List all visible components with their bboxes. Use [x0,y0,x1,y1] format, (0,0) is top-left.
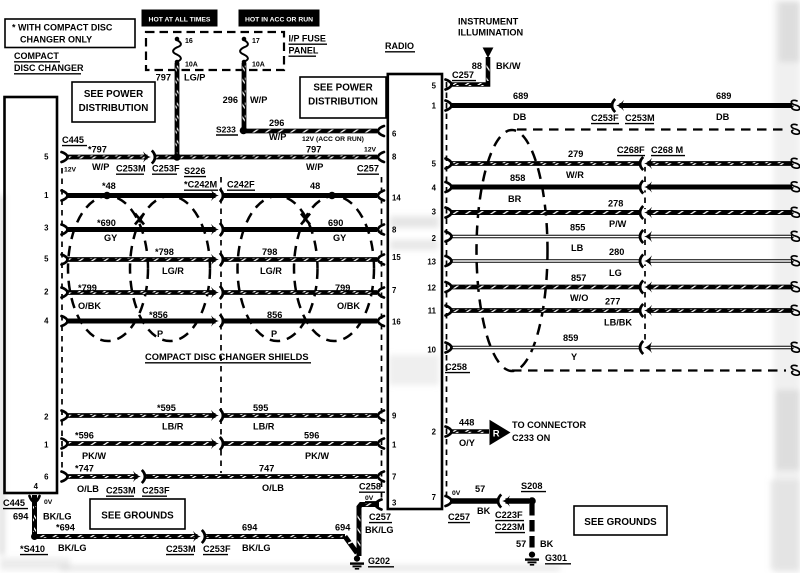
svg-text:7: 7 [392,473,396,482]
svg-text:797: 797 [306,145,321,155]
svg-text:694: 694 [13,512,29,522]
label RADIO [385,41,415,52]
svg-text:858: 858 [510,173,525,183]
see grounds box left [90,499,185,529]
connector plane C257 left dashed line [381,177,383,498]
svg-text:*797: *797 [88,145,107,155]
wire 689 DB row [446,99,800,112]
wire 48 row [62,189,385,202]
svg-text:DB: DB [513,112,527,122]
row858 labels [508,173,525,204]
svg-text:7: 7 [392,286,396,295]
power tag HOT IN ACC OR RUN [239,10,319,26]
svg-text:856: 856 [267,310,282,320]
wire 690 GY row [62,223,385,236]
svg-text:2: 2 [44,413,49,422]
row690 labels [97,218,346,243]
svg-text:HOT AT ALL TIMES: HOT AT ALL TIMES [149,16,211,23]
svg-text:*C242M: *C242M [184,180,218,190]
svg-text:C445: C445 [3,498,25,508]
svg-text:C223F: C223F [495,510,523,520]
row857 labels [570,273,588,303]
svg-text:278: 278 [608,199,623,209]
svg-text:COMPACT DISC CHANGER SHIELDS: COMPACT DISC CHANGER SHIELDS [145,352,309,362]
label I/P FUSE PANEL [289,34,328,57]
I/P fuse panel dashed box [146,32,284,70]
row279 labels [566,149,584,180]
pin3 wire labels [365,512,394,535]
svg-text:*799: *799 [78,283,97,293]
wire57b labels [516,539,554,549]
row595 labels [157,403,275,432]
svg-text:448: 448 [459,418,474,428]
svg-text:LG: LG [609,268,622,278]
svg-text:17: 17 [252,38,260,45]
svg-text:10A: 10A [185,62,198,69]
svg-text:C257: C257 [369,512,391,522]
radio left pin numbers [392,130,401,508]
svg-text:57: 57 [516,539,526,549]
connector plane C445 dashed line [61,168,63,473]
svg-text:*S410: *S410 [20,544,45,554]
svg-text:8: 8 [392,226,397,235]
svg-text:R: R [493,428,500,439]
row278 labels [608,199,627,230]
svg-text:279: 279 [568,149,583,159]
svg-text:12V: 12V [64,167,77,174]
svg-text:O/BK: O/BK [337,301,360,311]
fuse 16 10A [173,37,198,69]
svg-text:* WITH COMPACT DISC: * WITH COMPACT DISC [12,23,113,33]
svg-text:16: 16 [185,38,193,45]
svg-text:P: P [271,329,277,339]
connector C258 right label [445,362,470,373]
svg-text:RADIO: RADIO [385,41,414,51]
svg-text:DB: DB [716,112,730,122]
row296 labels [216,118,364,143]
shield ellipse B [130,196,210,341]
svg-text:W/P: W/P [250,95,267,105]
label COMPACT DISC CHANGER SHIELDS [145,352,311,363]
row57 labels [448,481,546,533]
wire 595 LB/R row [62,409,385,422]
label S410 [20,544,48,555]
svg-text:G202: G202 [368,556,390,566]
svg-text:CHANGER ONLY: CHANGER ONLY [20,35,92,45]
radio shield ellipse [477,130,548,371]
svg-text:W/P: W/P [306,162,323,172]
svg-text:C242F: C242F [227,180,255,190]
svg-text:10: 10 [427,346,436,355]
row859 labels [563,333,578,362]
svg-text:11: 11 [428,307,437,316]
svg-text:689: 689 [716,91,731,101]
connector C445 bottom labels [3,498,72,522]
svg-text:C257: C257 [452,70,474,80]
power tag HOT AT ALL TIMES [142,10,217,26]
svg-text:I/P FUSE: I/P FUSE [289,34,326,44]
svg-text:C253F: C253F [203,544,231,554]
see power distribution box right [300,77,386,118]
svg-text:C253M: C253M [166,544,196,554]
svg-text:5: 5 [432,82,437,91]
wire 797 LG/P fuse16 to S226 [156,63,206,157]
svg-text:296: 296 [223,95,238,105]
svg-text:57: 57 [475,484,485,494]
wire88 labels [452,61,521,81]
svg-text:C253F: C253F [142,486,170,496]
svg-text:595: 595 [253,403,268,413]
svg-text:S233: S233 [216,125,236,135]
svg-text:0V: 0V [365,495,374,502]
row799 labels [78,283,360,311]
wire 278 P/W row [446,206,800,219]
svg-text:*694: *694 [56,523,76,533]
svg-text:*798: *798 [155,247,174,257]
label INSTRUMENT ILLUMINATION [458,17,524,38]
svg-text:SEE GROUNDS: SEE GROUNDS [101,511,174,522]
svg-text:4: 4 [44,317,49,326]
svg-text:1: 1 [44,191,49,200]
ground G202 [350,556,394,569]
svg-text:C253M: C253M [106,486,136,496]
svg-text:10A: 10A [252,62,265,69]
svg-text:C223M: C223M [495,522,525,532]
svg-text:*596: *596 [75,431,94,441]
svg-text:DISC CHANGER: DISC CHANGER [14,63,84,73]
svg-text:BK: BK [540,539,554,549]
svg-text:S226: S226 [184,166,205,176]
splice S233 [240,127,248,135]
svg-text:SEE POWER: SEE POWER [84,89,143,100]
svg-text:S208: S208 [521,481,542,491]
instrument illumination arrow [483,48,494,59]
svg-text:12V: 12V [364,147,377,154]
svg-text:15: 15 [392,253,401,262]
wire 747 O/LB row [62,470,385,483]
svg-text:P: P [157,329,163,339]
svg-text:3: 3 [44,224,49,233]
svg-text:1: 1 [44,441,49,450]
svg-text:G301: G301 [545,553,567,563]
svg-text:C257: C257 [357,164,379,174]
shield crossover X left [135,214,144,225]
svg-text:BK/LG: BK/LG [58,543,87,553]
svg-text:INSTRUMENT: INSTRUMENT [458,17,519,27]
shield ellipse D [294,196,374,341]
svg-text:6: 6 [44,473,49,482]
svg-text:*747: *747 [75,464,94,474]
connector plane C242 dashed line [220,177,222,473]
svg-text:5: 5 [44,153,49,162]
svg-text:747: 747 [259,464,274,474]
wire 280 LG row [446,254,800,267]
connector C268 labels [617,145,685,156]
row596 labels [75,431,329,462]
splice S226 [173,153,181,161]
svg-text:13: 13 [427,258,436,267]
svg-text:*595: *595 [157,403,176,413]
svg-text:596: 596 [304,431,319,441]
see grounds box right [574,506,667,535]
svg-text:14: 14 [392,194,401,203]
wire 799 O/BK row [62,286,385,299]
shield ellipse C [238,196,318,341]
svg-text:*690: *690 [97,218,116,228]
svg-text:798: 798 [262,247,277,257]
svg-text:12V (ACC OR RUN): 12V (ACC OR RUN) [302,136,364,143]
svg-text:689: 689 [513,91,528,101]
shield crossover X right [301,214,310,225]
wire BK/LG radio pin3 to G202 [357,500,381,557]
ground G301 [525,552,571,565]
note box: WITH COMPACT DISC CHANGER ONLY [5,19,135,48]
svg-text:W/P: W/P [92,162,109,172]
row280 labels [609,247,624,278]
svg-text:GY: GY [333,233,346,243]
svg-text:PANEL: PANEL [289,46,319,56]
svg-text:*856: *856 [149,310,168,320]
svg-text:GY: GY [104,233,117,243]
wire 448 O/Y to connector C233 [446,427,490,437]
svg-text:LG/R: LG/R [162,266,184,276]
wire 857 W/O row [446,280,800,293]
svg-text:LB/R: LB/R [253,422,275,432]
wire 57 BK S208 to G301 [529,504,534,551]
svg-text:859: 859 [563,333,578,343]
svg-text:BK/W: BK/W [496,61,521,71]
svg-text:O/BK: O/BK [78,301,101,311]
svg-text:LB/R: LB/R [162,422,184,432]
svg-text:1: 1 [432,102,437,111]
svg-text:694: 694 [242,523,258,533]
svg-text:W/O: W/O [570,293,588,303]
svg-text:8: 8 [392,153,397,162]
svg-text:296: 296 [269,118,284,128]
shield ellipse A [68,196,148,341]
label COMPACT DISC CHANGER [14,51,84,74]
svg-text:690: 690 [328,218,343,228]
svg-text:857: 857 [571,273,586,283]
shield drain wire bottom [512,365,800,375]
wire 694 BK/LG ground run [35,530,358,553]
compact disc changer box [5,97,58,493]
svg-text:BK: BK [477,506,491,516]
row747 labels [75,464,385,503]
svg-text:C445: C445 [62,135,84,145]
shield junction dot left on wire 48 [103,192,110,199]
wire 296 W/P fuse17 to S233 [223,63,268,129]
wire 88 BK/W radio pin5 to illumination [446,57,490,90]
wire 279 W/R row [446,157,800,170]
fuse 17 10A [240,37,265,69]
svg-text:6: 6 [392,130,397,139]
svg-text:C268F: C268F [617,145,645,155]
svg-text:HOT IN ACC OR RUN: HOT IN ACC OR RUN [245,16,313,23]
svg-text:O/LB: O/LB [262,483,284,493]
svg-text:2: 2 [432,234,437,243]
svg-text:ILLUMINATION: ILLUMINATION [458,28,524,38]
svg-text:W/P: W/P [269,132,286,142]
splice S208 [528,497,536,505]
svg-text:LB: LB [571,243,584,253]
svg-text:P/W: P/W [609,219,627,229]
svg-text:BK/LG: BK/LG [43,512,72,522]
svg-text:799: 799 [335,283,350,293]
wire 296 W/P row S233 to radio [244,126,385,136]
connector plane C257/C258 right dashed line [446,82,448,496]
row48 labels [102,180,320,192]
svg-text:9: 9 [392,412,397,421]
svg-text:TO CONNECTOR: TO CONNECTOR [512,420,587,430]
row797 labels [62,135,379,177]
radio right pin numbers [427,82,436,503]
svg-text:SEE POWER: SEE POWER [313,83,372,94]
row856 labels [149,310,282,339]
arrow to C233 [490,420,511,446]
row855 labels [570,223,585,254]
svg-text:BK/LG: BK/LG [242,543,271,553]
svg-text:C268 M: C268 M [651,145,684,155]
svg-text:*48: *48 [102,181,116,191]
wire 858 BR row [446,180,800,193]
svg-text:SEE GROUNDS: SEE GROUNDS [584,517,657,528]
wire 855 LB row [446,230,800,243]
wire 596 PK/W row [62,437,385,450]
connector plane C268 dashed line [644,166,646,345]
svg-text:280: 280 [609,247,624,257]
splice S410 [31,533,38,540]
wire 797 W/P row [62,150,385,163]
svg-text:C257: C257 [448,512,470,522]
row277 labels [604,297,632,328]
svg-text:BK/LG: BK/LG [365,525,394,535]
svg-text:PK/W: PK/W [305,451,329,461]
svg-text:2: 2 [44,288,49,297]
svg-text:3: 3 [432,208,437,217]
svg-text:0V: 0V [44,499,53,506]
svg-text:C258: C258 [445,362,467,372]
svg-text:12: 12 [427,284,436,293]
svg-text:855: 855 [570,223,585,233]
CD changer pin numbers [34,153,50,492]
svg-text:277: 277 [605,297,620,307]
wire 798 LG/R row [62,253,385,266]
svg-text:W/R: W/R [566,170,584,180]
svg-text:694: 694 [335,523,351,533]
svg-text:COMPACT: COMPACT [14,51,59,61]
svg-text:Y: Y [571,352,577,362]
svg-text:4: 4 [432,184,437,193]
wire 694 BK/LG C445 to S410 [30,495,40,534]
row798 labels [155,247,282,276]
svg-text:C253M: C253M [116,164,146,174]
svg-text:C233 ON: C233 ON [512,433,551,443]
svg-text:5: 5 [44,255,49,264]
wire 57 BK radio pin7 to S208 [446,494,530,507]
see power distribution box left [72,82,155,122]
shield junction dot right on wire 48 [328,192,335,199]
svg-text:C253M: C253M [625,113,655,123]
svg-text:3: 3 [392,499,397,508]
svg-text:C253F: C253F [152,164,180,174]
svg-text:5: 5 [432,160,437,169]
row448 labels [459,418,587,449]
svg-text:LB/BK: LB/BK [604,318,632,328]
shield drain wire top [517,124,800,134]
wire 859 Y row [446,341,800,354]
ground run labels [56,523,351,555]
svg-text:0V: 0V [452,490,461,497]
radio box [388,74,442,509]
row689 labels [513,91,731,124]
svg-text:48: 48 [310,181,320,191]
svg-text:LG/P: LG/P [184,73,205,83]
svg-text:7: 7 [432,493,436,502]
svg-text:797: 797 [156,73,171,83]
svg-text:1: 1 [392,441,397,450]
wire 856 P row [62,314,385,327]
svg-text:DISTRIBUTION: DISTRIBUTION [79,103,149,114]
svg-text:DISTRIBUTION: DISTRIBUTION [308,97,378,108]
svg-text:16: 16 [392,318,401,327]
svg-text:4: 4 [34,482,39,491]
svg-text:C258: C258 [359,482,381,492]
svg-text:C253F: C253F [591,113,619,123]
svg-text:PK/W: PK/W [82,451,106,461]
svg-text:O/Y: O/Y [459,438,475,448]
svg-text:O/LB: O/LB [77,484,99,494]
svg-text:BR: BR [508,194,522,204]
wire 277 LB/BK row [446,304,800,317]
svg-text:2: 2 [432,428,437,437]
svg-text:LG/R: LG/R [260,266,282,276]
